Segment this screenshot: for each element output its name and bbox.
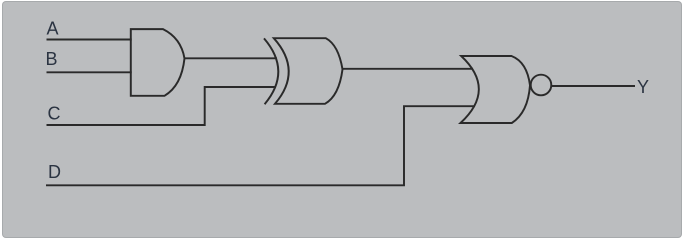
wire XOR output to NOR input — [343, 68, 474, 70]
wire A to AND input — [47, 39, 132, 41]
svg-text:Y: Y — [637, 77, 649, 97]
svg-text:C: C — [48, 104, 61, 124]
wire NOR output to Y — [551, 85, 635, 87]
wire AND output to XOR input — [185, 57, 278, 59]
XOR gate body — [274, 38, 343, 104]
svg-text:A: A — [47, 19, 59, 39]
wire C to XOR lower input — [47, 87, 277, 125]
svg-text:B: B — [46, 49, 58, 69]
NOR inversion bubble — [531, 75, 552, 96]
XOR gate input curve — [264, 38, 278, 104]
AND gate — [131, 29, 185, 96]
svg-text:D: D — [48, 162, 61, 182]
wire D to NOR lower input — [46, 106, 475, 185]
NOR gate body — [461, 56, 531, 123]
wire B to AND input — [47, 71, 132, 73]
